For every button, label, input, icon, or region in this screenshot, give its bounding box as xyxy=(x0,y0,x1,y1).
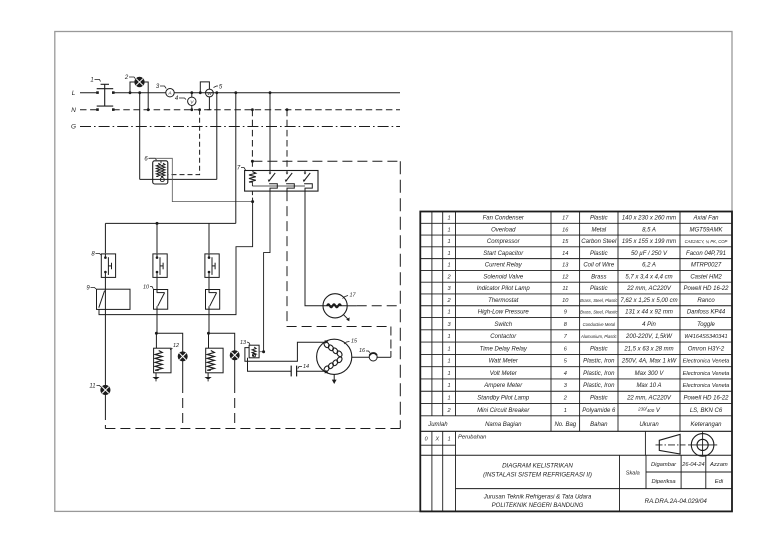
wire branch 1 to bottom bus xyxy=(104,395,106,410)
svg-text:Omron H3Y-2: Omron H3Y-2 xyxy=(688,346,725,352)
svg-text:1: 1 xyxy=(448,346,451,352)
svg-text:RA.DRA.2A-04.029/04: RA.DRA.2A-04.029/04 xyxy=(645,498,708,505)
svg-text:1: 1 xyxy=(448,437,451,443)
wire branch risers xyxy=(104,223,106,253)
svg-text:6,2 A: 6,2 A xyxy=(642,263,656,269)
svg-text:Jurusan Teknik Refrigerasi & T: Jurusan Teknik Refrigerasi & Tata Udara xyxy=(483,494,592,500)
wire U loop bottom xyxy=(140,178,217,180)
svg-text:1: 1 xyxy=(448,263,451,269)
overload F16 xyxy=(369,353,377,361)
svg-text:Volt Meter: Volt Meter xyxy=(490,371,518,377)
svg-text:Contactor: Contactor xyxy=(490,334,517,340)
svg-text:A: A xyxy=(167,91,171,97)
ground branch 2 xyxy=(155,373,157,377)
svg-text:Electronica Veneta: Electronica Veneta xyxy=(683,371,730,377)
svg-text:Powell HD 16-22: Powell HD 16-22 xyxy=(683,396,729,402)
wire L drop to contact 1 xyxy=(269,93,271,171)
svg-text:12: 12 xyxy=(562,274,569,280)
svg-text:10: 10 xyxy=(562,298,569,304)
relay K6 coils xyxy=(160,161,162,163)
meter P3 (ampere meter A) xyxy=(166,89,174,97)
svg-text:15: 15 xyxy=(351,339,358,345)
svg-text:1: 1 xyxy=(448,239,451,245)
svg-text:12: 12 xyxy=(173,343,179,349)
relay K3a (solenoid coil) body xyxy=(206,348,223,373)
capacitor C14 (start capacitor) xyxy=(290,366,292,377)
svg-text:2: 2 xyxy=(124,75,129,81)
contactor K7 contact at x=287 xyxy=(286,171,288,173)
wire contact3 output to fan motor xyxy=(305,191,323,306)
svg-text:10: 10 xyxy=(143,285,150,291)
svg-text:Plastic: Plastic xyxy=(590,396,608,402)
svg-text:Plastic: Plastic xyxy=(590,286,608,292)
thermostat B10-2 xyxy=(206,290,220,310)
svg-text:1: 1 xyxy=(448,227,451,233)
svg-text:Current Relay: Current Relay xyxy=(485,263,523,269)
projection circle symbol xyxy=(691,434,714,457)
switch S8-3 (toggle switch) xyxy=(205,254,219,278)
wire current relay to start capacitor xyxy=(248,358,292,372)
wire bottom return bus (dashed) xyxy=(105,428,400,430)
wire N drop to contact 2 (dashed) xyxy=(286,110,288,171)
svg-text:250V, 4A, Max 1 kW: 250V, 4A, Max 1 kW xyxy=(621,359,678,365)
svg-text:POLITEKNIK NEGERI BANDUNG: POLITEKNIK NEGERI BANDUNG xyxy=(492,503,584,509)
svg-text:Axial Fan: Axial Fan xyxy=(692,215,719,221)
svg-text:0: 0 xyxy=(425,437,428,443)
svg-text:Plastic: Plastic xyxy=(590,215,608,221)
svg-text:Nama Bagian: Nama Bagian xyxy=(485,422,522,428)
lamp H11 (indicator pilot lamp) xyxy=(101,385,110,394)
svg-text:8,5 A: 8,5 A xyxy=(642,227,656,233)
wire fan motor to right riser xyxy=(347,305,357,307)
wire branch 2 lamp to bottom bus xyxy=(182,361,184,383)
wire branch 3 lamp to bottom bus xyxy=(234,360,236,383)
svg-text:G: G xyxy=(71,124,76,131)
svg-text:Toggle: Toggle xyxy=(697,322,715,328)
ground branch 3 xyxy=(207,373,209,377)
svg-text:21,5 x 63 x 28 mm: 21,5 x 63 x 28 mm xyxy=(623,346,673,352)
motor M17 (fan condenser) xyxy=(323,294,347,318)
svg-text:Solenoid Valve: Solenoid Valve xyxy=(483,274,523,280)
parts table xyxy=(420,212,732,512)
svg-text:Facon 04P,791: Facon 04P,791 xyxy=(686,251,726,257)
wire L drop to switch bus xyxy=(235,93,237,224)
contactor K7 body xyxy=(245,171,318,192)
switch S8-2 (toggle switch) xyxy=(153,254,167,278)
wire capacitor to compressor start xyxy=(297,370,328,372)
svg-text:Indicator Pilot Lamp: Indicator Pilot Lamp xyxy=(477,286,531,292)
svg-text:Standby Pilot Lamp: Standby Pilot Lamp xyxy=(477,396,530,402)
wire L drop to time relay xyxy=(139,93,141,180)
relay K2a (solenoid coil) body xyxy=(154,348,171,373)
contactor K7 coil xyxy=(249,172,256,183)
svg-text:High-Low Pressure: High-Low Pressure xyxy=(478,310,530,316)
svg-text:X: X xyxy=(434,437,439,443)
svg-text:L: L xyxy=(72,90,76,97)
svg-text:Max 300 V: Max 300 V xyxy=(635,371,665,377)
projection cone symbol xyxy=(659,434,680,454)
thermostat B10-1 xyxy=(154,290,168,310)
svg-text:CAE24CY, ¼ PK, COP: CAE24CY, ¼ PK, COP xyxy=(685,239,728,244)
svg-text:4: 4 xyxy=(564,371,567,377)
svg-text:Danfoss KP44: Danfoss KP44 xyxy=(687,310,726,316)
svg-text:17: 17 xyxy=(349,293,356,299)
svg-text:Time Delay Relay: Time Delay Relay xyxy=(480,346,528,352)
svg-text:Watt Meter: Watt Meter xyxy=(489,359,519,365)
svg-text:Plastic: Plastic xyxy=(590,346,608,352)
svg-text:14: 14 xyxy=(303,364,309,370)
wire contact2 output loop (dashed) xyxy=(287,191,391,326)
projection symbol cell xyxy=(644,431,646,455)
svg-text:16: 16 xyxy=(562,227,569,233)
svg-text:11: 11 xyxy=(562,286,568,292)
lamp H12a (indicator pilot lamp) xyxy=(178,352,187,361)
svg-text:Diperiksa: Diperiksa xyxy=(651,479,676,485)
svg-text:(INSTALASI SISTEM REFRIGERASI: (INSTALASI SISTEM REFRIGERASI II) xyxy=(483,472,592,479)
wire N drop to contactor coil (dashed) xyxy=(251,110,253,171)
border frame xyxy=(55,32,732,512)
svg-text:Start Capacitor: Start Capacitor xyxy=(483,251,524,257)
svg-text:1: 1 xyxy=(448,334,451,340)
svg-text:22 mm, AC220V: 22 mm, AC220V xyxy=(626,286,672,292)
contactor K7 contact at x=270 xyxy=(269,171,271,173)
svg-text:5,7 x 3,4 x 4,4 cm: 5,7 x 3,4 x 4,4 cm xyxy=(625,274,672,280)
svg-text:131 x 44 x 92 mm: 131 x 44 x 92 mm xyxy=(625,310,673,316)
wire branch 1 lower xyxy=(104,309,106,385)
svg-text:N: N xyxy=(71,107,76,114)
svg-text:Skala: Skala xyxy=(626,470,640,476)
svg-text:140 x 230 x 260 mm: 140 x 230 x 260 mm xyxy=(622,215,676,221)
wire branch 2 to relay xyxy=(156,309,158,333)
svg-text:Perubahan: Perubahan xyxy=(458,434,486,440)
wire right dashed riser xyxy=(399,161,401,428)
svg-text:Compressor: Compressor xyxy=(487,239,521,245)
wire V meter taps xyxy=(191,93,193,97)
wire branch 2 lamp arm xyxy=(156,333,182,352)
wire current relay to compressor run xyxy=(245,342,327,361)
svg-text:Mini Circuit Breaker: Mini Circuit Breaker xyxy=(477,408,530,414)
svg-text:13: 13 xyxy=(240,340,247,346)
svg-text:1: 1 xyxy=(90,78,93,84)
meter P5 (watt meter W) xyxy=(206,89,214,97)
relay K6 contact circle xyxy=(160,178,164,182)
svg-text:MGT59AMK: MGT59AMK xyxy=(689,227,723,233)
svg-text:195 x 155 x 199 mm: 195 x 155 x 199 mm xyxy=(622,239,676,245)
svg-text:Plastic, Iron: Plastic, Iron xyxy=(583,371,615,377)
svg-text:1: 1 xyxy=(448,215,451,221)
motor M15 windings xyxy=(323,341,330,349)
meter P4 (volt meter V) xyxy=(188,97,196,105)
wire contact1 output to current relay xyxy=(264,191,270,352)
svg-text:No. Bag: No. Bag xyxy=(554,422,576,428)
svg-text:Brass, Steel, Plastic: Brass, Steel, Plastic xyxy=(580,310,618,315)
contactor K7 contact at x=305 xyxy=(304,171,306,173)
svg-text:Electronica Veneta: Electronica Veneta xyxy=(683,359,730,365)
svg-text:Coil of Wire: Coil of Wire xyxy=(583,263,615,269)
wire W meter to N xyxy=(208,97,210,110)
svg-text:Ukuran: Ukuran xyxy=(639,422,659,428)
wire relay 6 output xyxy=(150,158,253,201)
svg-text:Castel HM2: Castel HM2 xyxy=(690,274,722,280)
svg-text:LS, BKN C6: LS, BKN C6 xyxy=(690,408,723,414)
wire switch bus xyxy=(105,222,235,224)
wire contactor coil return to pressure switch xyxy=(99,202,253,315)
svg-text:Ampere Meter: Ampere Meter xyxy=(483,383,523,389)
svg-text:DIAGRAM KELISTRIKAN: DIAGRAM KELISTRIKAN xyxy=(502,463,573,470)
title block xyxy=(456,488,733,490)
svg-text:Switch: Switch xyxy=(494,322,512,328)
wire contactor coil lead below (dashed) xyxy=(251,191,253,202)
svg-text:11: 11 xyxy=(89,384,95,390)
lamp H1 (standby pilot lamp) xyxy=(135,77,145,87)
svg-text:1: 1 xyxy=(448,310,451,316)
svg-text:26-04-24: 26-04-24 xyxy=(681,462,704,468)
propeller mark xyxy=(344,315,348,319)
pressure switch B9 (high-low pressure) xyxy=(97,289,131,309)
wire aux dashed feeder to right riser xyxy=(252,160,400,162)
svg-text:Powell HD 16-22: Powell HD 16-22 xyxy=(683,286,729,292)
relay K13 (current relay) body xyxy=(249,345,259,358)
svg-text:50 µF / 250 V: 50 µF / 250 V xyxy=(631,251,668,257)
relay K6 (time delay relay) body xyxy=(153,161,168,184)
svg-text:4 Pin: 4 Pin xyxy=(642,322,656,328)
svg-text:Conductive Metal: Conductive Metal xyxy=(583,322,616,327)
svg-text:Plastic, Iron: Plastic, Iron xyxy=(583,383,615,389)
svg-text:Thermostat: Thermostat xyxy=(488,298,519,304)
svg-text:7,62 x 1,25 x 5,00 cm: 7,62 x 1,25 x 5,00 cm xyxy=(620,298,677,304)
svg-text:1: 1 xyxy=(448,359,451,365)
svg-text:Max 10 A: Max 10 A xyxy=(636,383,661,389)
svg-text:9: 9 xyxy=(564,310,567,316)
lamp H12b (indicator pilot lamp) xyxy=(230,351,239,360)
svg-text:1: 1 xyxy=(448,383,451,389)
svg-text:1: 1 xyxy=(448,371,451,377)
svg-text:Bahan: Bahan xyxy=(590,422,608,428)
revision row xyxy=(420,454,732,456)
svg-text:14: 14 xyxy=(562,251,568,257)
svg-text:15: 15 xyxy=(562,239,569,245)
svg-text:MTRP0027: MTRP0027 xyxy=(691,263,722,269)
svg-text:16: 16 xyxy=(359,348,366,354)
svg-text:Jumlah: Jumlah xyxy=(427,422,448,428)
svg-text:1: 1 xyxy=(564,408,567,414)
svg-text:1: 1 xyxy=(448,396,451,402)
wire compressor common down arrow xyxy=(333,374,335,380)
switch S8-1 (toggle switch) xyxy=(101,254,115,278)
svg-text:Fan Condenser: Fan Condenser xyxy=(483,215,525,221)
wire current relay junction xyxy=(259,351,264,353)
svg-text:13: 13 xyxy=(562,263,569,269)
svg-text:Electronica Veneta: Electronica Veneta xyxy=(683,383,730,389)
svg-text:Azzam: Azzam xyxy=(709,462,728,468)
wire N rail (dashed) xyxy=(80,109,97,111)
svg-text:Metal: Metal xyxy=(591,227,606,233)
svg-text:22 mm, AC220V: 22 mm, AC220V xyxy=(626,396,672,402)
wire branch 3 lamp arm xyxy=(209,333,235,350)
svg-text:W: W xyxy=(207,91,212,96)
wire W meter current loop xyxy=(200,82,209,93)
wire overload to riser xyxy=(377,356,391,358)
svg-text:Keterangan: Keterangan xyxy=(690,422,722,428)
svg-text:Ranco: Ranco xyxy=(697,298,715,304)
breaker Q1 (mini circuit breaker, 2-pole) xyxy=(96,91,99,94)
svg-text:Brass, Steel, Plastic: Brass, Steel, Plastic xyxy=(580,298,618,303)
svg-text:Edi: Edi xyxy=(715,479,724,485)
svg-text:Polyamide 6: Polyamide 6 xyxy=(582,408,616,414)
svg-text:200-220V, 1,5kW: 200-220V, 1,5kW xyxy=(625,334,673,340)
svg-text:Overload: Overload xyxy=(491,227,516,233)
svg-text:Brass: Brass xyxy=(591,274,606,280)
svg-text:Alumunium, Plastic: Alumunium, Plastic xyxy=(580,334,618,339)
svg-text:17: 17 xyxy=(562,215,569,221)
svg-text:Carbon Steel: Carbon Steel xyxy=(581,239,617,245)
wire G rail (dash-dot) xyxy=(80,126,400,128)
svg-text:1: 1 xyxy=(448,251,451,257)
wire branch 3 to relay xyxy=(208,309,210,333)
svg-text:W4164S5340341: W4164S5340341 xyxy=(684,334,727,340)
wire L rail xyxy=(80,92,97,94)
wire U loop right riser xyxy=(216,93,218,180)
motor M15 (compressor) xyxy=(317,339,352,374)
wire N drop to relay 6 (dashed) xyxy=(168,110,200,175)
wire lamp loop xyxy=(130,82,135,93)
svg-text:Plastic, Iron: Plastic, Iron xyxy=(583,359,615,365)
svg-text:Digambar: Digambar xyxy=(651,462,677,468)
wire compressor to overload xyxy=(352,356,369,358)
svg-text:Plastic: Plastic xyxy=(590,251,608,257)
